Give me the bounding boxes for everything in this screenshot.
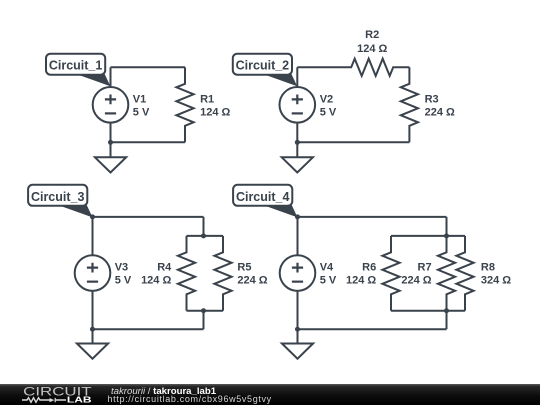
wire <box>92 217 94 255</box>
flag label Circuit_2 <box>233 54 297 87</box>
node junction <box>295 327 300 332</box>
svg-text:R1: R1 <box>200 93 214 105</box>
wire <box>93 328 204 330</box>
node junction <box>90 214 95 219</box>
wire <box>297 291 299 344</box>
resistor R5 <box>214 236 231 311</box>
svg-text:224 Ω: 224 Ω <box>401 275 431 287</box>
svg-text:V4: V4 <box>320 262 334 274</box>
wire <box>446 311 448 330</box>
node junction <box>201 233 206 238</box>
svg-text:224 Ω: 224 Ω <box>237 275 267 287</box>
CircuitLab logo <box>0 384 105 405</box>
wire <box>296 67 298 87</box>
voltage source V2 <box>280 87 316 123</box>
resistor R2 <box>335 59 409 76</box>
ground <box>282 157 313 172</box>
wire <box>298 216 447 218</box>
node junction <box>444 233 449 238</box>
wire <box>110 123 112 158</box>
R3 value label <box>425 93 455 118</box>
wire <box>446 217 448 236</box>
svg-text:R3: R3 <box>425 93 439 105</box>
wire <box>111 66 186 68</box>
svg-text:Circuit_1: Circuit_1 <box>49 59 103 73</box>
node junction <box>201 308 206 313</box>
flag label Circuit_3 <box>28 185 92 218</box>
R7 value label <box>401 262 431 287</box>
wire <box>297 141 409 143</box>
wire bottom rail <box>187 310 224 312</box>
ground <box>282 344 313 359</box>
svg-text:124 Ω: 124 Ω <box>346 275 376 287</box>
resistor R4 <box>178 236 195 311</box>
wire <box>297 217 299 255</box>
svg-text:224 Ω: 224 Ω <box>425 106 455 118</box>
wire <box>298 328 447 330</box>
node junction <box>444 308 449 313</box>
node junction <box>295 214 300 219</box>
voltage source V4 <box>280 255 316 291</box>
svg-text:R8: R8 <box>481 262 495 274</box>
node junction <box>108 140 113 145</box>
svg-text:Circuit_3: Circuit_3 <box>31 190 85 204</box>
svg-text:124 Ω: 124 Ω <box>141 275 171 287</box>
flag label Circuit_1 <box>46 54 110 87</box>
R2 value label <box>357 29 387 55</box>
node junction <box>295 140 300 145</box>
svg-text:124 Ω: 124 Ω <box>357 43 387 55</box>
resistor R3 <box>401 67 418 142</box>
V1 value label <box>133 93 150 118</box>
svg-text:Circuit_4: Circuit_4 <box>236 190 290 204</box>
V4 value label <box>320 262 337 287</box>
svg-text:V2: V2 <box>320 93 333 105</box>
wire <box>93 216 204 218</box>
V2 value label <box>320 93 337 118</box>
R8 value label <box>481 262 511 287</box>
credit text <box>111 386 216 397</box>
ground <box>77 344 108 359</box>
svg-text:LAB: LAB <box>67 395 92 405</box>
svg-text:V3: V3 <box>115 262 128 274</box>
svg-text:5 V: 5 V <box>320 275 337 287</box>
wire top rail <box>187 235 224 237</box>
svg-text:5 V: 5 V <box>320 106 337 118</box>
wire <box>111 141 186 143</box>
voltage source V3 <box>75 255 111 291</box>
footer bar <box>0 384 540 405</box>
svg-text:5 V: 5 V <box>115 275 132 287</box>
V3 value label <box>115 262 132 287</box>
svg-text:R2: R2 <box>365 29 379 41</box>
R5 value label <box>237 262 267 287</box>
resistor R7 <box>438 236 455 311</box>
svg-text:Circuit_2: Circuit_2 <box>236 59 290 73</box>
svg-text:R5: R5 <box>237 262 251 274</box>
wire <box>297 66 335 68</box>
resistor R8 <box>456 236 473 311</box>
R6 value label <box>346 262 376 287</box>
wire <box>110 67 112 87</box>
wire top rail <box>391 235 465 237</box>
resistor R1 <box>176 67 193 142</box>
voltage source V1 <box>93 87 129 123</box>
flag label Circuit_4 <box>233 185 297 218</box>
wire bottom rail <box>391 310 465 312</box>
svg-text:R7: R7 <box>418 262 432 274</box>
ground <box>95 157 126 172</box>
svg-text:324 Ω: 324 Ω <box>481 275 511 287</box>
wire <box>203 217 205 236</box>
R4 value label <box>141 262 172 287</box>
svg-text:5 V: 5 V <box>133 106 150 118</box>
wire <box>92 291 94 344</box>
R1 value label <box>200 93 230 118</box>
wire <box>203 311 205 330</box>
resistor R6 <box>382 236 399 311</box>
wire <box>296 123 298 158</box>
svg-text:R6: R6 <box>362 262 376 274</box>
svg-text:124 Ω: 124 Ω <box>200 106 230 118</box>
node junction <box>90 327 95 332</box>
svg-text:V1: V1 <box>133 93 146 105</box>
svg-text:R4: R4 <box>157 262 172 274</box>
